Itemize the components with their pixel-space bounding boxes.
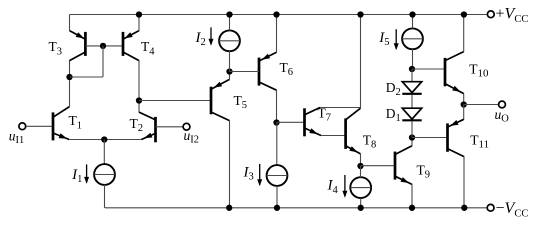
svg-text:T3: T3 [49, 39, 63, 57]
wire T3 emitter to rail [69, 15, 71, 32]
wire T7 collector to x360 riser [320, 107, 361, 109]
node G (I5 / D2 / T10 base) [409, 66, 415, 72]
transistor T3 [70, 31, 86, 61]
terminal output uO [499, 101, 506, 108]
transistor T5 [211, 79, 230, 120]
terminal +VCC [487, 11, 494, 18]
junction dot T5 bottom rail [226, 205, 232, 211]
svg-text:D1: D1 [386, 106, 401, 124]
wire uI1 to T1 base [26, 125, 52, 127]
terminal input uI1 [19, 123, 26, 130]
junction dot T4 rail [136, 11, 142, 17]
svg-text:T9: T9 [417, 162, 431, 180]
wire T6 emitter to rail [276, 15, 278, 53]
wire I2 bottom [229, 51, 231, 72]
transistor T7 [305, 108, 322, 137]
wire output node to terminal [464, 104, 499, 106]
wire riser x360 to top rail [360, 15, 362, 109]
wire T6 base [230, 71, 260, 73]
svg-text:D2: D2 [386, 80, 401, 98]
arrow I1 [86, 164, 88, 182]
arrow I4 [344, 175, 346, 196]
transistor T1 [53, 107, 70, 141]
svg-text:T1: T1 [69, 113, 83, 131]
transistor T4 [123, 31, 139, 61]
wire node B to T5 base [139, 100, 211, 102]
wire T5 emitter up to node C [229, 72, 231, 80]
current source I4 [350, 177, 371, 198]
wire I5 bottom to node G [412, 49, 414, 69]
node E (T8 emitter / T9 base / I4) [357, 163, 363, 169]
current source I3 [267, 165, 288, 186]
svg-text:I4: I4 [327, 178, 339, 196]
wire emitter node to I1 [103, 140, 105, 165]
wire T5 collector to bottom rail [229, 120, 231, 208]
junction dot T6 rail [273, 11, 279, 17]
junction dot I3 rail [274, 205, 280, 211]
wire T1 collector up to node A [69, 60, 71, 107]
wire T4 collector down [138, 60, 140, 112]
wire T6 collector down to node D [276, 90, 278, 123]
diode D2 [402, 69, 421, 94]
junction dot I5 rail [409, 11, 415, 17]
node C (I2 / T5 emitter / T6 base) [226, 68, 232, 74]
svg-text:+VCC: +VCC [496, 6, 529, 25]
junction dot I4 rail [358, 205, 364, 211]
current source I2 [219, 30, 240, 51]
transistor T8 [346, 108, 361, 154]
svg-text:−VCC: −VCC [496, 200, 529, 219]
junction dot riser rail [357, 11, 363, 17]
svg-text:T5: T5 [234, 93, 248, 111]
junction dot I2 rail [226, 11, 232, 17]
wire bottom supply rail [105, 207, 487, 209]
node F (D1 / T9 coll / T11 base) [409, 134, 415, 140]
svg-text:T4: T4 [141, 39, 155, 57]
wire top supply rail [70, 14, 488, 16]
wire T9 emitter to bottom rail [411, 184, 413, 208]
wire I2 top [229, 15, 231, 31]
junction dot T11 rail [461, 205, 467, 211]
arrow I3 [259, 164, 261, 185]
wire T7 emitter to T8 base [321, 135, 346, 137]
svg-text:T2: T2 [130, 116, 144, 134]
wire I4 to bottom rail [360, 198, 362, 208]
svg-text:T8: T8 [363, 133, 377, 151]
wire T8 emitter down to node E [360, 154, 362, 166]
node B (T4/T2 collectors to T5 base) [136, 97, 142, 103]
transistor T6 [259, 52, 277, 90]
terminal -VCC [487, 204, 494, 211]
current source I5 [402, 28, 423, 49]
wire T4 emitter to rail [138, 15, 140, 32]
wire node G to T10 base [412, 68, 445, 70]
transistor T9 [395, 146, 412, 185]
svg-text:I1: I1 [71, 167, 82, 185]
wire node F to T11 base [412, 137, 448, 139]
wire common emitters [69, 139, 141, 141]
svg-text:uO: uO [495, 107, 510, 125]
wire T10 collector to rail [463, 15, 465, 52]
node A (T1/T3 collectors, mirror tie) [66, 74, 72, 80]
wire D1 to node F [411, 121, 413, 137]
wire node D to I3 [276, 123, 278, 166]
junction dot T9 rail [409, 205, 415, 211]
svg-text:T10: T10 [469, 61, 489, 79]
wire mirror diode connection [102, 46, 104, 77]
node base tie [100, 43, 106, 49]
svg-text:I5: I5 [378, 30, 389, 48]
wire node D to T7 base [277, 121, 305, 123]
node H output [461, 101, 467, 107]
wire T11 collector to bottom rail [463, 156, 465, 208]
arrow I2 [210, 27, 212, 44]
wire node E to T9 base [361, 165, 396, 167]
transistor T11 [448, 119, 465, 156]
diode D1 [402, 95, 421, 121]
node D (T6 coll / T7 base / I3) [273, 119, 279, 125]
wire I3 to bottom rail [276, 186, 278, 208]
arrow I5 [395, 29, 397, 49]
wire I5 top [412, 15, 414, 29]
svg-text:I3: I3 [243, 165, 254, 183]
svg-text:T11: T11 [470, 132, 489, 150]
wire T2 base to uI2 [156, 126, 184, 128]
junction dot T10 rail [461, 11, 467, 17]
transistor T10 [445, 52, 464, 94]
svg-text:I2: I2 [195, 30, 206, 48]
wire T3-T4 base tie [85, 45, 123, 47]
svg-text:uI2: uI2 [184, 128, 200, 146]
svg-text:uI1: uI1 [9, 129, 24, 147]
transistor T2 [139, 112, 156, 142]
wire T11 emitter up to output node [463, 105, 465, 120]
terminal input uI2 [183, 123, 190, 130]
wire T10 emitter to output node [463, 93, 465, 104]
node common emitter [101, 136, 107, 142]
wire node E to I4 [360, 166, 362, 177]
current source I1 [94, 164, 115, 185]
wire I1 to bottom rail [104, 185, 106, 208]
svg-text:T6: T6 [280, 60, 294, 78]
wire T9 collector up to node F [411, 138, 413, 146]
